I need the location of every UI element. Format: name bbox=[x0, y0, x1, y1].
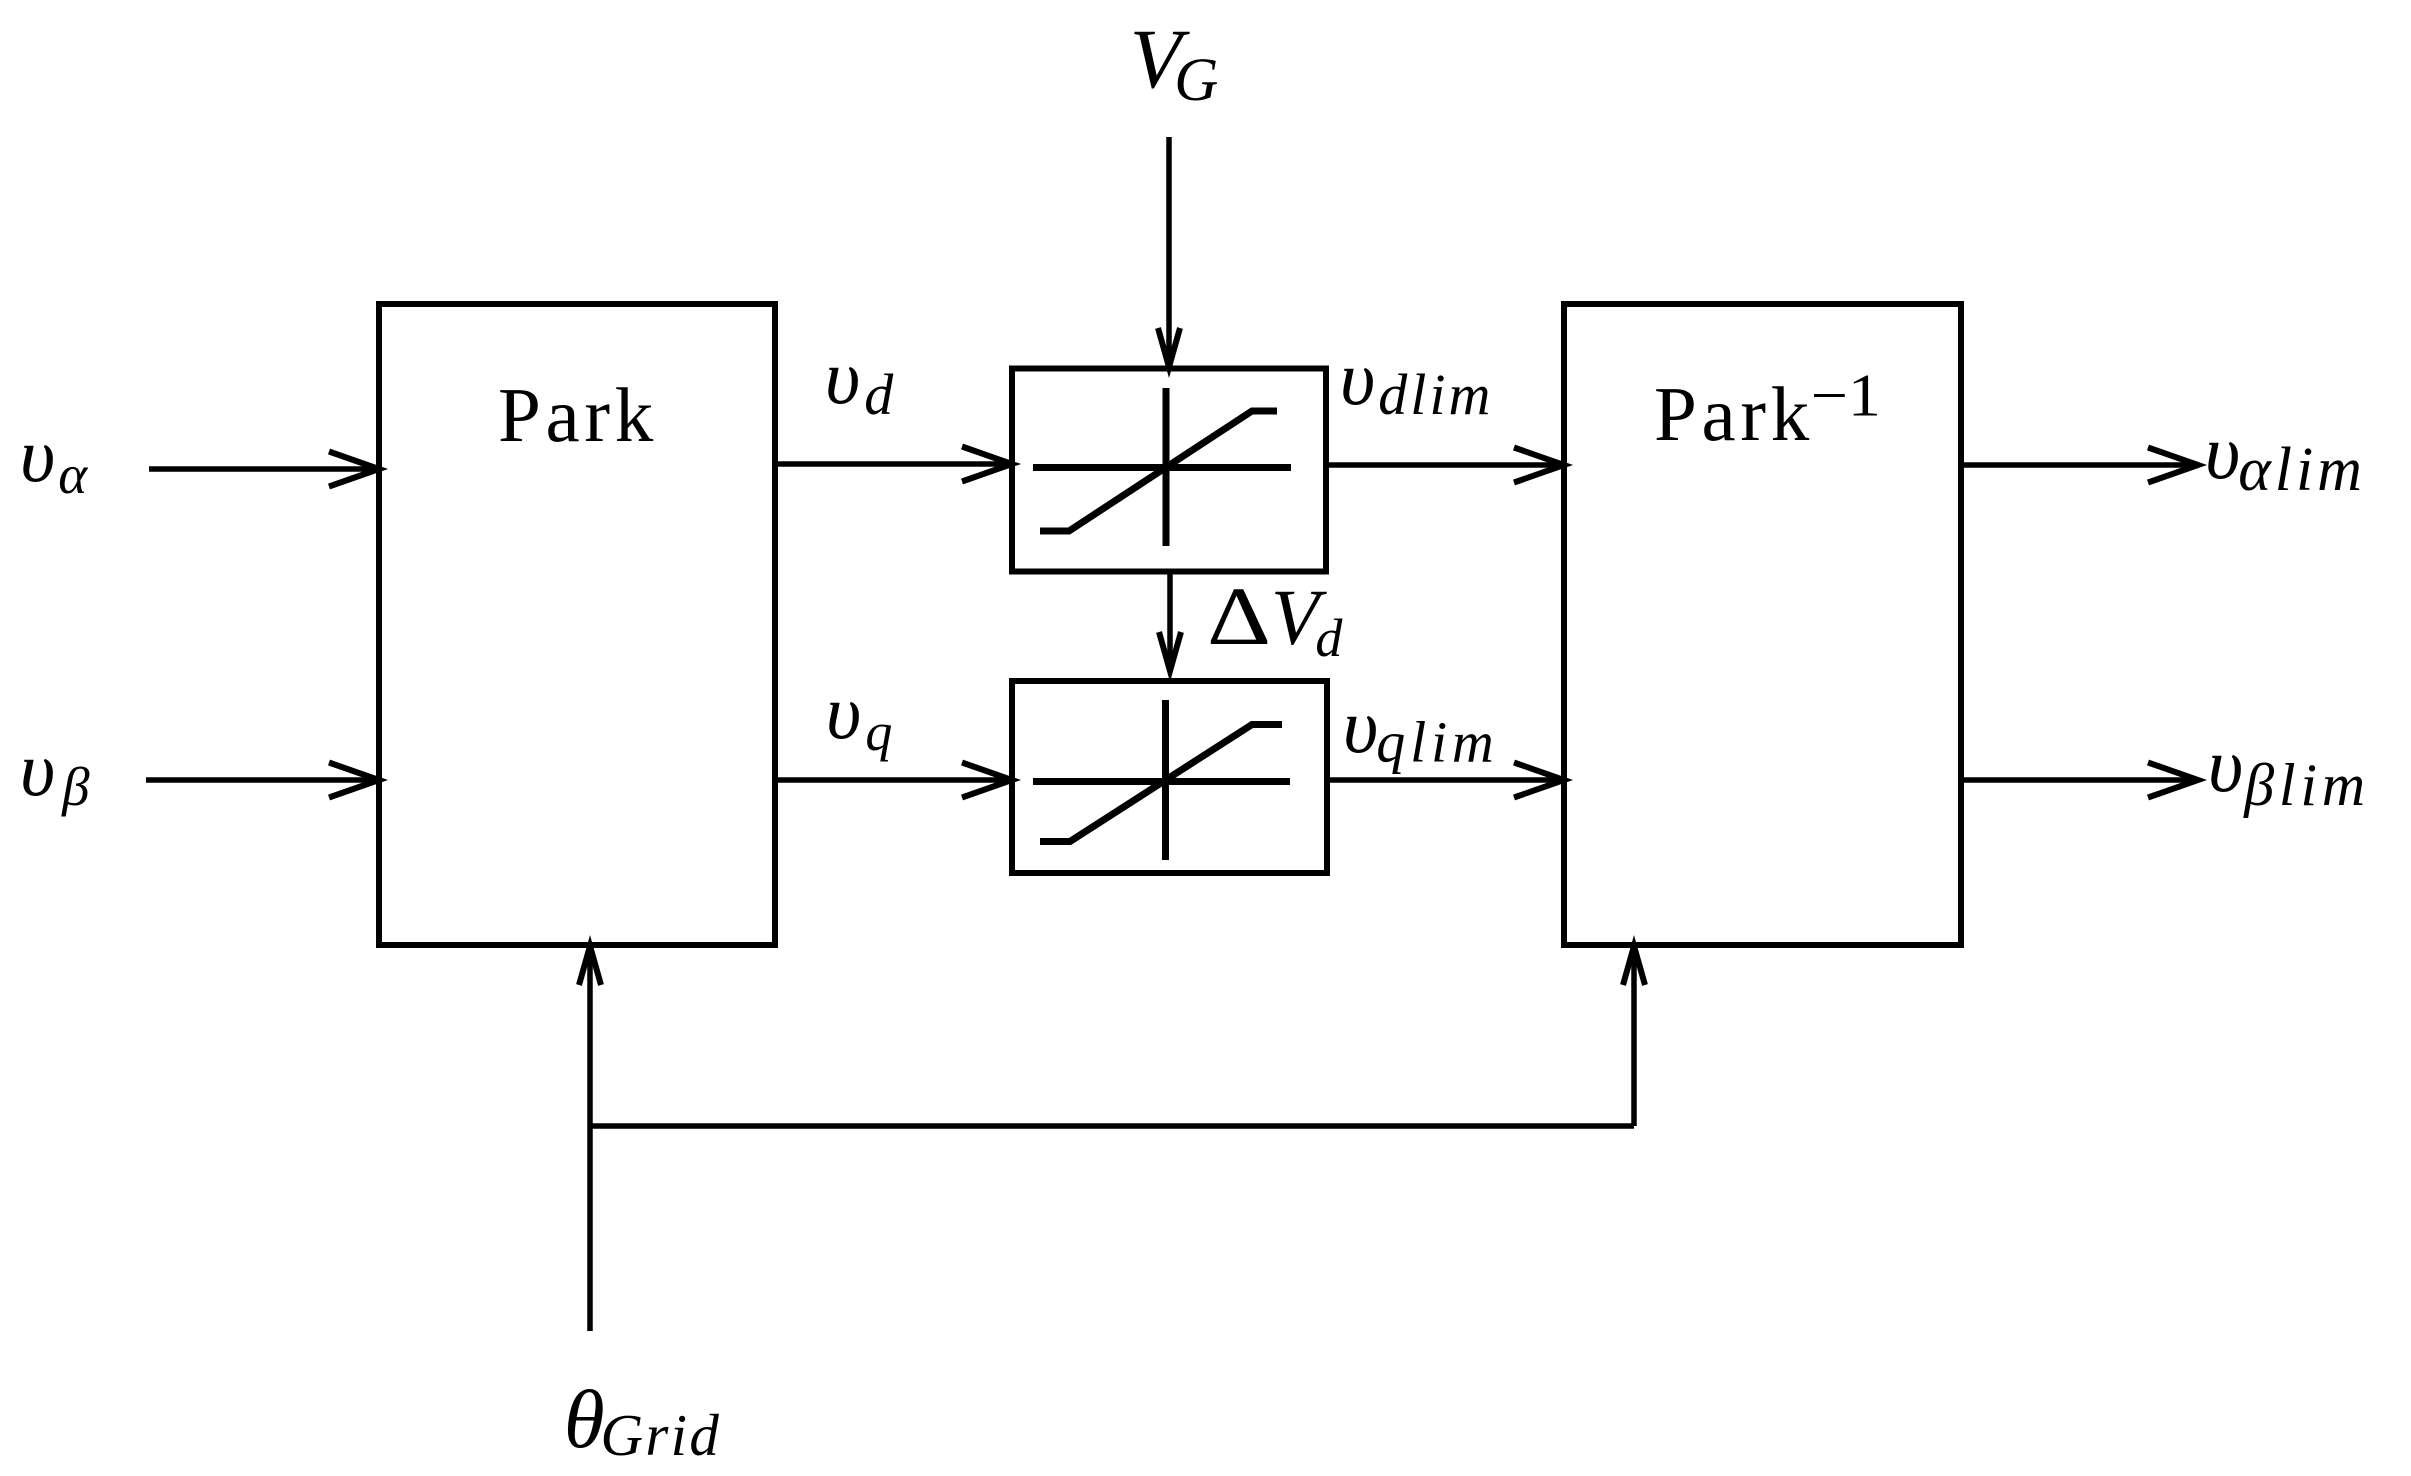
svg-text:G: G bbox=[1174, 47, 1218, 114]
label Delta V_d bbox=[1207, 570, 1343, 668]
limiter U1 saturation curve bbox=[1040, 411, 1277, 531]
svg-text:Δ: Δ bbox=[1207, 570, 1271, 662]
wire arrow v_qlim limiter U2 to Park^-1 bbox=[1327, 763, 1564, 798]
wire arrow up into Park^-1 bbox=[1623, 946, 1645, 1126]
svg-text:υ: υ bbox=[2205, 409, 2240, 495]
svg-text:qlim: qlim bbox=[1376, 710, 1498, 775]
wire arrow v_betalim output bbox=[1961, 763, 2198, 798]
svg-text:Park: Park bbox=[498, 372, 658, 458]
block Park bbox=[379, 304, 775, 945]
limiter U1 horizontal axis bbox=[1033, 464, 1291, 471]
svg-text:υ: υ bbox=[20, 412, 55, 498]
limiter U1 box bbox=[1012, 369, 1326, 572]
label v_q bbox=[826, 669, 893, 762]
block Park^-1 bbox=[1564, 304, 1961, 945]
label v_qlim bbox=[1343, 683, 1499, 775]
svg-text:υ: υ bbox=[826, 669, 861, 755]
limiter U2 box bbox=[1012, 681, 1327, 873]
wire theta feedback up into Park bbox=[579, 946, 601, 1331]
wire arrow V_G down into limiter U1 bbox=[1158, 137, 1180, 367]
label v_d bbox=[825, 334, 894, 427]
svg-text:υ: υ bbox=[1343, 683, 1378, 769]
label v_betalim bbox=[2208, 722, 2370, 818]
svg-text:υ: υ bbox=[1340, 335, 1375, 421]
svg-text:υ: υ bbox=[825, 334, 860, 420]
limiter U1 (saturation, top) bbox=[1012, 369, 1326, 572]
label v_beta bbox=[20, 726, 90, 817]
limiter U2 (saturation, bottom) bbox=[1012, 681, 1327, 873]
Park^-1 box bbox=[1564, 304, 1961, 945]
svg-text:Park: Park bbox=[1654, 371, 1814, 457]
svg-text:q: q bbox=[865, 702, 892, 762]
svg-text:Grid: Grid bbox=[601, 1402, 722, 1468]
wire arrow v_alphalim output bbox=[1961, 448, 2198, 483]
svg-text:υ: υ bbox=[20, 726, 55, 812]
Park box bbox=[379, 304, 775, 945]
label theta_Grid bbox=[564, 1373, 721, 1468]
svg-text:−1: −1 bbox=[1811, 362, 1881, 429]
label v_alpha bbox=[20, 412, 88, 505]
svg-text:d: d bbox=[1315, 608, 1343, 668]
limiter U2 vertical axis bbox=[1162, 700, 1169, 860]
limiter U1 vertical axis bbox=[1163, 388, 1170, 546]
wire arrow v_dlim limiter U1 to Park^-1 bbox=[1326, 448, 1564, 483]
limiter U2 saturation curve bbox=[1040, 725, 1282, 842]
wire arrow v_q Park to limiter U2 bbox=[775, 763, 1012, 798]
limiter U2 horizontal axis bbox=[1033, 778, 1290, 785]
label V_G bbox=[1130, 12, 1219, 114]
svg-text:α: α bbox=[58, 444, 88, 505]
label v_dlim bbox=[1340, 335, 1494, 427]
label v_alphalim bbox=[2205, 409, 2366, 504]
wire arrow v_beta input bbox=[146, 763, 379, 798]
svg-text:υ: υ bbox=[2208, 722, 2243, 808]
wire arrow Delta V_d limiter U1 to limiter U2 bbox=[1159, 574, 1181, 671]
wire arrow v_alpha input bbox=[149, 452, 379, 487]
svg-text:dlim: dlim bbox=[1378, 362, 1493, 427]
svg-text:αlim: αlim bbox=[2238, 436, 2366, 504]
wire arrow v_d Park to limiter U1 bbox=[775, 447, 1012, 482]
svg-text:βlim: βlim bbox=[2243, 752, 2370, 818]
svg-text:d: d bbox=[864, 362, 894, 427]
svg-text:β: β bbox=[61, 756, 90, 817]
wire horizontal feedback bbox=[590, 1123, 1634, 1129]
svg-text:θ: θ bbox=[564, 1373, 605, 1465]
